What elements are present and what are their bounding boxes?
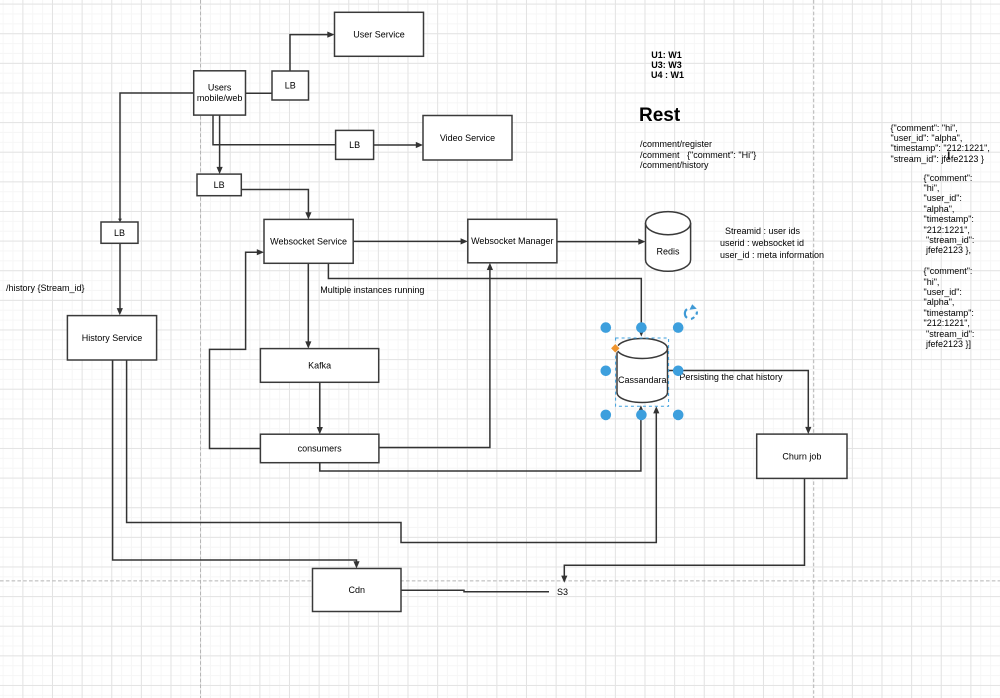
wire LB-d to History Service [119,243,121,309]
svg-text:History Service: History Service [82,333,143,343]
wire Websocket Manager to Redis [557,241,640,243]
selection anchor diamond [611,344,621,354]
arrowhead into Kafka [305,341,311,348]
arrowhead into Cassandara top [638,329,644,336]
box Websocket Service [264,219,353,263]
cylinder Cassandara [617,339,668,403]
wire Cdn to S3 [401,590,549,592]
box LB-d [101,222,138,243]
note json message 3 [924,266,975,349]
box LB-b [336,130,374,159]
wire Users to LB-b [213,115,336,144]
page break vertical 1 [200,0,202,698]
arrowhead into Churn job [805,427,811,434]
svg-text:LB: LB [285,81,296,91]
page break vertical 2 [813,0,815,698]
wire LB-a to User Service [290,35,329,71]
note json message 1 [891,123,990,164]
wire Kafka to consumers [319,382,321,428]
note multiple instances [320,285,424,295]
selection outline of Cassandara [616,338,669,406]
arrowhead into consumers [317,427,323,434]
note streamid mapping [720,225,824,262]
text cursor caret [948,152,950,160]
arrowhead into Websocket Manager [461,238,468,244]
box Cdn [313,569,402,612]
box History Service [67,316,156,360]
arrowhead into Cassandara bottom from consumers [638,405,644,412]
box Websocket Manager [468,219,557,262]
svg-text:Websocket Manager: Websocket Manager [471,236,553,246]
arrowhead into LB-c [217,167,223,174]
arrowhead into Websocket Service left [257,249,264,255]
box consumers [260,434,379,463]
wire Churn job to S3 [564,478,804,576]
svg-text:Users: Users [208,83,232,93]
arrowhead into User Service [327,32,334,38]
note U-W mapping [651,50,682,81]
wire consumers to Websocket Manager [379,269,490,448]
wire Websocket Service to Cassandara [328,263,641,330]
svg-text:Video Service: Video Service [440,133,495,143]
box Kafka [260,349,378,383]
wire LB-b to Video Service [374,144,417,146]
arrowhead into Cdn [353,561,359,568]
wire Websocket Service to Websocket Manager [353,240,462,242]
svg-text:User Service: User Service [353,30,405,40]
svg-text:Websocket Service: Websocket Service [270,237,347,247]
note history endpoint [6,283,85,293]
wire Websocket Service to Kafka [307,263,309,342]
svg-text:consumers: consumers [298,444,343,454]
page break horizontal [0,580,1000,582]
svg-text:S3: S3 [557,587,568,597]
box User Service [335,12,424,56]
note comment endpoints [640,139,756,170]
arrowhead into Video Service [416,142,423,148]
arrowhead into History Service [117,308,123,315]
wire consumers to Cassandara bottom [320,412,641,472]
svg-text:mobile/web: mobile/web [197,93,243,103]
wire Users to LB-d [120,93,194,220]
svg-text:LB: LB [349,140,360,150]
arrowhead into S3 [561,576,567,583]
wire Cassandara to Churn job [668,371,809,429]
wire LB-c to Websocket Service [241,190,308,214]
arrowhead into Websocket Manager bottom [487,263,493,270]
svg-text:Redis: Redis [656,246,680,256]
cylinder Redis [646,212,691,272]
box LB-a [272,71,309,100]
svg-text:Kafka: Kafka [308,361,331,371]
svg-text:LB: LB [114,228,125,238]
svg-text:Churn job: Churn job [782,451,821,461]
box LB-c [197,174,241,196]
svg-text:Cdn: Cdn [349,585,366,595]
svg-text:Persisting the chat history: Persisting the chat history [679,372,783,382]
svg-text:Cassandara: Cassandara [618,375,667,385]
arrowhead into LB-d (small) [118,219,122,223]
wire Users to LB-c [219,115,221,167]
svg-text:LB: LB [214,180,225,190]
wire History Service to Cdn [113,360,357,563]
box Video Service [423,116,512,161]
selection rotation handle [685,309,697,319]
selection handles [601,322,684,420]
arrowhead into Cassandara bottom from History [653,406,659,413]
arrowhead into Websocket Service top [305,212,311,219]
note json message 2 [924,173,975,256]
wire consumers to Websocket Service [210,252,261,448]
box Churn job [757,434,847,478]
wire History Service to Cassandara [127,360,657,543]
wire Users to LB-a [246,92,273,94]
heading Rest [639,106,680,126]
arrowhead into Redis [638,239,645,245]
box Users mobile/web [194,71,246,115]
